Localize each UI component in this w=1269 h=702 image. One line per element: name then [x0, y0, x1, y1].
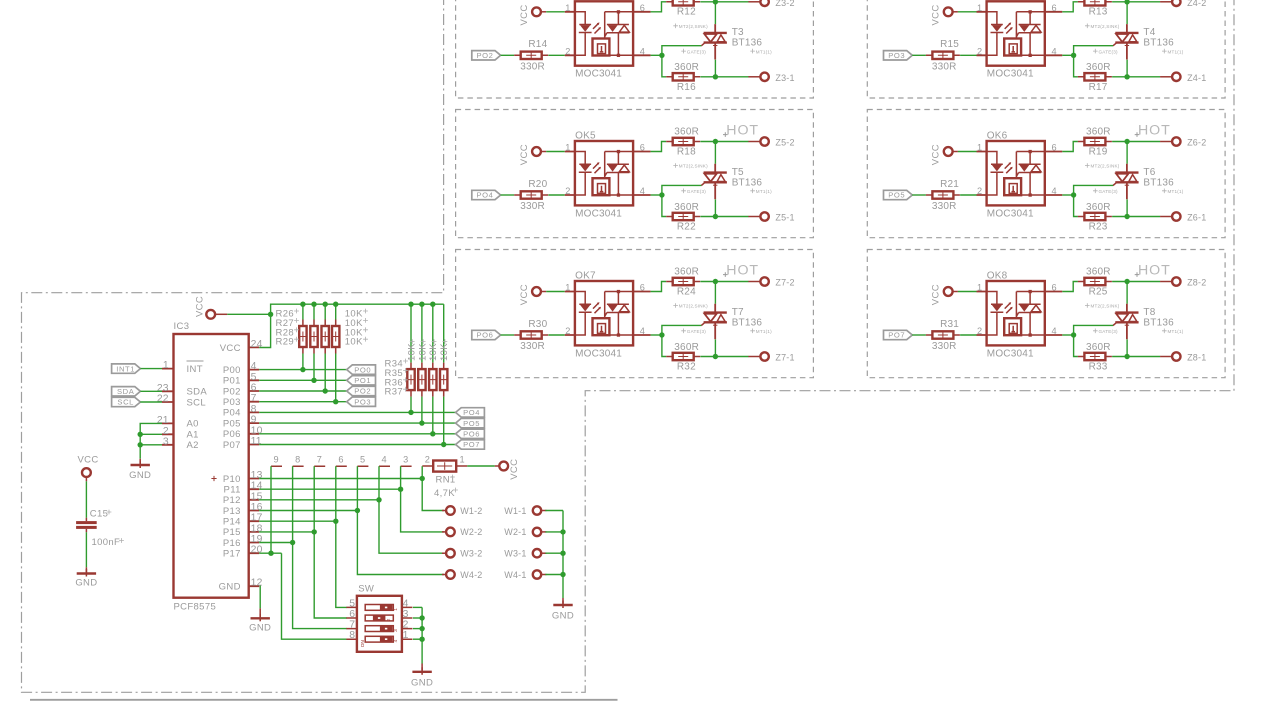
svg-text:MOC3041: MOC3041	[987, 348, 1034, 359]
net flag SDA	[112, 387, 141, 396]
IC3 PCF8575 body	[174, 334, 249, 598]
svg-text:330R: 330R	[520, 341, 545, 352]
svg-text:OK8: OK8	[987, 271, 1008, 282]
junction node W2-1	[560, 529, 565, 534]
wire pin 4 to R17	[1074, 55, 1078, 77]
wire P14 from IC3	[259, 520, 336, 522]
wire R30 to pin 2	[548, 334, 564, 336]
wire R34 to P04	[410, 397, 412, 413]
svg-text:Z4-2: Z4-2	[1187, 0, 1206, 8]
svg-text:6: 6	[640, 3, 645, 13]
value label MOC3041	[987, 69, 1034, 80]
svg-text:GND: GND	[219, 582, 241, 593]
junction node bus/R29	[333, 302, 338, 307]
resistor R21 330R	[926, 179, 960, 212]
wire pin 4 to R33	[1074, 335, 1078, 357]
svg-text:330R: 330R	[520, 62, 545, 73]
label OK4	[987, 0, 1008, 2]
svg-text:BT136: BT136	[1143, 177, 1174, 188]
svg-text:P14: P14	[223, 517, 241, 528]
terminal W4-2	[442, 570, 455, 579]
svg-text:1: 1	[565, 143, 570, 153]
svg-text:1: 1	[163, 360, 169, 371]
net label HOT	[1135, 262, 1171, 278]
svg-text:5: 5	[360, 455, 365, 465]
svg-text:GATE(3): GATE(3)	[687, 329, 706, 334]
svg-text:IC3: IC3	[174, 321, 190, 332]
svg-text:Z7-1: Z7-1	[775, 353, 794, 363]
resistor R22 360R	[666, 202, 700, 233]
net flag PO7	[456, 440, 485, 449]
svg-text:R14: R14	[528, 39, 547, 50]
junction node pin 4	[1071, 53, 1076, 58]
OK7 channel dashed border	[456, 250, 814, 378]
terminal Z3-2	[748, 0, 794, 8]
svg-text:A0: A0	[187, 419, 199, 430]
wire P01 to flag PO1	[259, 379, 347, 381]
svg-text:2: 2	[977, 326, 982, 336]
value labels 10K (R26-R29)	[345, 309, 368, 348]
junction node SW pin 1	[419, 637, 424, 642]
wire pin 4 to R32	[662, 335, 666, 357]
wire R15 to pin 2	[960, 54, 976, 56]
svg-text:6: 6	[251, 383, 257, 394]
wire P11 from IC3	[259, 488, 400, 490]
junction node bus/R27	[311, 302, 316, 307]
svg-text:PO2: PO2	[477, 51, 494, 60]
svg-text:17: 17	[251, 513, 263, 524]
junction node R25/Z8-2	[1124, 279, 1129, 284]
svg-text:P15: P15	[223, 527, 241, 538]
terminal Z5-1	[748, 212, 794, 222]
svg-text:1: 1	[565, 3, 570, 13]
OK4 pin numbers	[977, 3, 1057, 57]
junction node A2	[138, 442, 143, 447]
junction node R23/Z6-1	[1124, 214, 1129, 219]
junction node R19/Z6-2	[1124, 139, 1129, 144]
net flag PO3	[347, 397, 376, 406]
svg-text:MT2(2,SINK): MT2(2,SINK)	[1091, 164, 1120, 169]
wire R17 to Z4-1	[1112, 76, 1160, 78]
svg-text:MT1(1): MT1(1)	[756, 49, 772, 54]
ground symbol (C15)	[77, 569, 96, 577]
wire SW pin 3 to GND rail	[413, 617, 422, 619]
wire P15 to SW pin 6	[314, 532, 347, 618]
wire P13 from IC3	[259, 510, 357, 512]
ground symbol (IC3)	[259, 608, 261, 617]
wire P15 to RN1 pin 7	[313, 466, 315, 532]
resistor R29 10K (pull-up)	[332, 320, 339, 354]
wire P17 from IC3	[259, 552, 281, 554]
resistor R13 360R	[1078, 0, 1112, 18]
svg-text:R24: R24	[677, 286, 696, 297]
wire P03 to flag PO3	[259, 401, 347, 403]
svg-text:R30: R30	[528, 319, 547, 330]
triac T8 BT136	[1113, 304, 1139, 339]
svg-text:VCC: VCC	[195, 296, 206, 317]
OK6 pin numbers	[977, 143, 1057, 197]
svg-text:Z3-2: Z3-2	[775, 0, 794, 8]
value label MOC3041	[987, 348, 1034, 359]
svg-text:Z3-1: Z3-1	[775, 73, 794, 83]
junction node bus/R26	[300, 302, 305, 307]
svg-text:A2: A2	[187, 440, 199, 451]
wire R22 to Z5-1	[700, 216, 748, 218]
svg-text:PO5: PO5	[463, 419, 480, 428]
junction node SW pin 2	[419, 626, 424, 631]
window edge line	[30, 699, 618, 701]
wire R13 to Z4-2	[1112, 1, 1160, 3]
wire P14 to RN1 pin 6	[335, 466, 337, 521]
junction node bus/R36	[430, 302, 435, 307]
junction node P11	[398, 487, 403, 492]
wire pin 4 to R22	[662, 195, 666, 217]
svg-text:4: 4	[1052, 46, 1057, 56]
wire INT1 to IC3	[140, 368, 162, 370]
junction node P03	[333, 399, 338, 404]
svg-text:9: 9	[251, 415, 257, 426]
wire R21 to pin 2	[960, 194, 976, 196]
svg-text:HOT: HOT	[726, 262, 759, 278]
wire VCC to pin 1	[958, 151, 977, 153]
net flag PO5	[456, 418, 485, 427]
IC3 right pin stubs	[249, 347, 260, 586]
junction node R13/Z4-2	[1124, 0, 1129, 5]
wire T6 MT1 down	[1126, 199, 1128, 216]
svg-text:PO6: PO6	[463, 430, 480, 439]
svg-text:PO5: PO5	[888, 191, 905, 200]
DIP switch SW	[346, 596, 412, 652]
svg-text:4: 4	[640, 326, 645, 336]
wire to T7 MT2	[714, 282, 716, 304]
resistor R20 330R	[514, 179, 548, 212]
svg-text:4: 4	[640, 186, 645, 196]
wire to T3 MT2	[714, 2, 716, 24]
svg-text:MT2(2,SINK): MT2(2,SINK)	[679, 304, 708, 309]
wire bus to R34	[410, 304, 412, 362]
svg-text:C15: C15	[90, 508, 108, 519]
wire gate of T8	[1074, 325, 1114, 335]
svg-text:OK6: OK6	[987, 131, 1008, 142]
svg-text:20: 20	[251, 545, 263, 556]
svg-text:MT1(1): MT1(1)	[1168, 189, 1184, 194]
net label HOT	[723, 262, 759, 278]
svg-text:11: 11	[251, 436, 262, 447]
svg-text:R25: R25	[1089, 286, 1108, 297]
value label MOC3041	[575, 348, 622, 359]
svg-text:MT1(1): MT1(1)	[1168, 49, 1184, 54]
svg-text:W4-2: W4-2	[460, 570, 482, 580]
svg-text:PO0: PO0	[354, 365, 371, 374]
wire pin 4 to gate	[1062, 194, 1073, 196]
svg-text:GND: GND	[75, 577, 97, 588]
optocoupler OK5 MOC3041	[565, 141, 651, 205]
wire SW pin 4 to GND rail	[413, 606, 422, 608]
svg-text:R19: R19	[1089, 146, 1108, 157]
svg-text:MT2(2,SINK): MT2(2,SINK)	[1091, 24, 1120, 29]
wire P15 from IC3	[259, 531, 314, 533]
svg-text:19: 19	[251, 534, 263, 545]
labels T8 BT136	[1143, 307, 1174, 329]
wire P16 from IC3	[259, 542, 292, 544]
T4 pin function labels	[1085, 24, 1184, 55]
svg-text:21: 21	[157, 415, 169, 426]
svg-text:PCF8575: PCF8575	[174, 602, 217, 613]
svg-text:4: 4	[382, 455, 387, 465]
resistor R14 330R	[514, 39, 548, 72]
wire P05 to flag PO5	[259, 422, 455, 424]
wire pin 6 to R18	[651, 142, 667, 152]
svg-text:PO1: PO1	[354, 376, 371, 385]
resistor R33 360R	[1078, 342, 1112, 373]
svg-text:10K: 10K	[406, 343, 417, 361]
junction node R22/Z5-1	[713, 214, 718, 219]
label OK6	[987, 131, 1008, 142]
svg-text:330R: 330R	[932, 341, 957, 352]
svg-text:W4-1: W4-1	[504, 570, 526, 580]
svg-text:P12: P12	[223, 495, 241, 506]
svg-text:100nF: 100nF	[92, 537, 121, 548]
wire pin 4 to gate	[651, 194, 662, 196]
terminal W3-2	[442, 549, 455, 558]
wire pin 6 to R12	[651, 2, 667, 12]
VCC supply symbol (OK8 block)	[931, 284, 958, 305]
resistor R30 330R	[514, 319, 548, 352]
svg-text:R15: R15	[940, 39, 959, 50]
wire pin 4 to gate	[651, 54, 662, 56]
svg-text:5: 5	[251, 372, 257, 383]
junction node P12	[376, 497, 381, 502]
wire C15 to GND	[85, 532, 87, 567]
svg-text:BT136: BT136	[732, 38, 763, 49]
svg-text:1: 1	[977, 283, 982, 293]
wire PO3 to R15	[912, 54, 926, 56]
svg-text:P17: P17	[223, 549, 241, 560]
triac T3 BT136	[701, 24, 727, 59]
svg-text:13: 13	[251, 470, 263, 481]
svg-text:OK4: OK4	[987, 0, 1008, 2]
labels R34 R35 R36 R37	[385, 359, 408, 398]
SW pin numbers	[349, 598, 408, 641]
resistor R15 330R	[926, 39, 960, 72]
svg-text:W2-2: W2-2	[460, 527, 482, 537]
OK4 channel dashed border	[867, 0, 1225, 98]
svg-text:330R: 330R	[520, 201, 545, 212]
value label MOC3041	[575, 208, 622, 219]
svg-text:T7: T7	[732, 307, 744, 318]
terminal Z6-2	[1160, 137, 1206, 147]
wire gate of T7	[662, 325, 702, 335]
svg-text:HOT: HOT	[726, 122, 759, 138]
svg-text:4: 4	[1052, 186, 1057, 196]
svg-text:R23: R23	[1089, 222, 1108, 233]
wire R29 to P03	[335, 354, 337, 402]
svg-text:VCC: VCC	[509, 459, 520, 480]
junction node P13	[355, 508, 360, 513]
junction node VCC branch	[268, 312, 273, 317]
svg-text:GATE(3): GATE(3)	[687, 189, 706, 194]
svg-text:VCC: VCC	[220, 343, 241, 354]
terminal Z4-1	[1160, 73, 1206, 83]
wire R35 to P05	[421, 397, 423, 424]
svg-text:4: 4	[251, 361, 257, 372]
IC3 pin names	[187, 343, 241, 593]
junction node W3-1	[560, 551, 565, 556]
wire to T8 MT2	[1126, 282, 1128, 304]
svg-text:OK7: OK7	[575, 271, 596, 282]
label OK3	[575, 0, 596, 2]
wire to T5 MT2	[714, 142, 716, 164]
svg-text:OK3: OK3	[575, 0, 596, 2]
svg-text:7: 7	[349, 620, 355, 631]
terminal W2-1	[533, 528, 547, 536]
svg-text:T3: T3	[732, 27, 744, 38]
wire P10 to RN1 pin 2	[421, 466, 423, 478]
OK7 pin numbers	[565, 283, 645, 337]
wire R32 to Z7-1	[700, 356, 748, 358]
svg-text:4: 4	[640, 46, 645, 56]
svg-text:16: 16	[251, 502, 263, 513]
labels T7 BT136	[732, 307, 763, 329]
wire R16 to Z3-1	[700, 76, 748, 78]
VCC supply symbol (RN1)	[499, 462, 508, 471]
wire W2-1 to GND rail	[545, 531, 563, 533]
svg-text:R13: R13	[1089, 7, 1108, 18]
svg-text:T5: T5	[732, 167, 744, 178]
wire P12 to W3-2	[379, 500, 444, 553]
wire R26 to P00	[302, 354, 304, 370]
IC3 right pin numbers	[251, 339, 263, 589]
wire T3 MT1 down	[714, 60, 716, 77]
net flag PO5	[884, 190, 913, 199]
wire VCC to pin 1	[546, 151, 565, 153]
wire VCC to pin 1	[546, 291, 565, 293]
OK3 pin numbers	[565, 3, 645, 57]
junction node P01	[311, 378, 316, 383]
svg-text:GATE(3): GATE(3)	[1099, 329, 1118, 334]
svg-text:2: 2	[565, 46, 570, 56]
triac T7 BT136	[701, 304, 727, 339]
terminal W2-2	[442, 528, 455, 537]
terminal Z4-2	[1160, 0, 1206, 8]
resistor R28 10K (pull-up)	[322, 320, 329, 354]
svg-text:1: 1	[460, 455, 465, 465]
terminal W4-1	[533, 570, 547, 578]
wire R31 to pin 2	[960, 334, 976, 336]
wire SW pin 1 to GND rail	[413, 638, 422, 640]
resistor R18 360R	[666, 127, 700, 158]
svg-text:GND: GND	[411, 677, 433, 688]
net flag PO6	[456, 429, 485, 438]
junction node P15	[312, 529, 317, 534]
wire IC3 pin 12 to GND	[259, 586, 262, 608]
wire PO5 to R21	[912, 194, 926, 196]
labels T3 BT136	[732, 27, 763, 49]
svg-text:2: 2	[565, 326, 570, 336]
svg-text:2: 2	[565, 186, 570, 196]
svg-text:9: 9	[274, 455, 279, 465]
svg-text:1: 1	[977, 3, 982, 13]
wire R20 to pin 2	[548, 194, 564, 196]
optocoupler OK7 MOC3041	[565, 281, 651, 345]
junction node pin 4	[659, 53, 664, 58]
wire R36 to P06	[432, 397, 434, 434]
wire PO4 to R20	[501, 194, 515, 196]
svg-text:PO3: PO3	[888, 51, 905, 60]
wire P14 to SW pin 5	[336, 521, 347, 607]
svg-text:P07: P07	[223, 440, 241, 451]
svg-text:6: 6	[640, 143, 645, 153]
OK5 channel dashed border	[456, 110, 814, 238]
wire bus to R27	[313, 304, 315, 319]
svg-text:Z5-1: Z5-1	[775, 213, 794, 223]
junction node SW pin 3	[419, 615, 424, 620]
resistor R36 10K (pull-up)	[429, 363, 436, 397]
svg-text:10K: 10K	[417, 343, 428, 361]
wire P17 to SW pin 8	[282, 553, 347, 639]
svg-text:VCC: VCC	[519, 144, 530, 165]
wire pin 6 to R24	[651, 282, 667, 292]
svg-text:HOT: HOT	[1138, 262, 1171, 278]
svg-text:360R: 360R	[1086, 342, 1111, 353]
wire bus to R36	[432, 304, 434, 362]
svg-text:GATE(3): GATE(3)	[687, 49, 706, 54]
wire PO7 to R31	[912, 334, 926, 336]
wire R14 to pin 2	[548, 54, 564, 56]
junction node R17/Z4-1	[1124, 74, 1129, 79]
OK5 pin numbers	[565, 143, 645, 197]
net flag PO1	[347, 376, 376, 385]
svg-text:R37: R37	[385, 387, 403, 398]
junction node R24/Z7-2	[713, 279, 718, 284]
OK6 channel dashed border	[867, 110, 1225, 238]
svg-text:MOC3041: MOC3041	[575, 348, 622, 359]
svg-text:5: 5	[349, 598, 355, 609]
svg-text:SDA: SDA	[117, 387, 135, 396]
junction node bus/R28	[323, 302, 328, 307]
labels T5 BT136	[732, 167, 763, 189]
resistor R37 10K (pull-up)	[440, 363, 447, 397]
wire P04 to flag PO4	[259, 411, 455, 413]
svg-text:PO7: PO7	[463, 440, 480, 449]
terminal Z8-2	[1160, 277, 1206, 287]
svg-text:1: 1	[565, 283, 570, 293]
wire PO2 to R14	[501, 54, 515, 56]
svg-text:7: 7	[317, 455, 322, 465]
net flag PO6	[472, 330, 501, 339]
wire bus to R37	[443, 304, 445, 362]
svg-text:GND: GND	[552, 610, 574, 621]
svg-text:R22: R22	[677, 222, 696, 233]
triac T4 BT136	[1113, 24, 1139, 59]
svg-text:10K: 10K	[345, 337, 363, 348]
svg-text:1: 1	[977, 143, 982, 153]
svg-text:W3-2: W3-2	[460, 549, 482, 559]
net flag PO7	[884, 330, 913, 339]
optocoupler OK3 MOC3041	[565, 1, 651, 65]
svg-text:SCL: SCL	[187, 397, 207, 408]
wire SW pin 2 to GND rail	[413, 628, 422, 630]
junction node bus/R35	[419, 302, 424, 307]
svg-text:6: 6	[349, 609, 355, 620]
wire gate of T6	[1074, 185, 1114, 195]
svg-text:P01: P01	[223, 376, 241, 387]
wire R33 to Z8-1	[1112, 356, 1160, 358]
RN1 pin numbers	[274, 455, 465, 465]
wire P11 to RN1 pin 3	[400, 466, 402, 489]
OK3 channel dashed border	[456, 0, 814, 98]
wire VCC to IC3 pin 24	[227, 314, 270, 347]
